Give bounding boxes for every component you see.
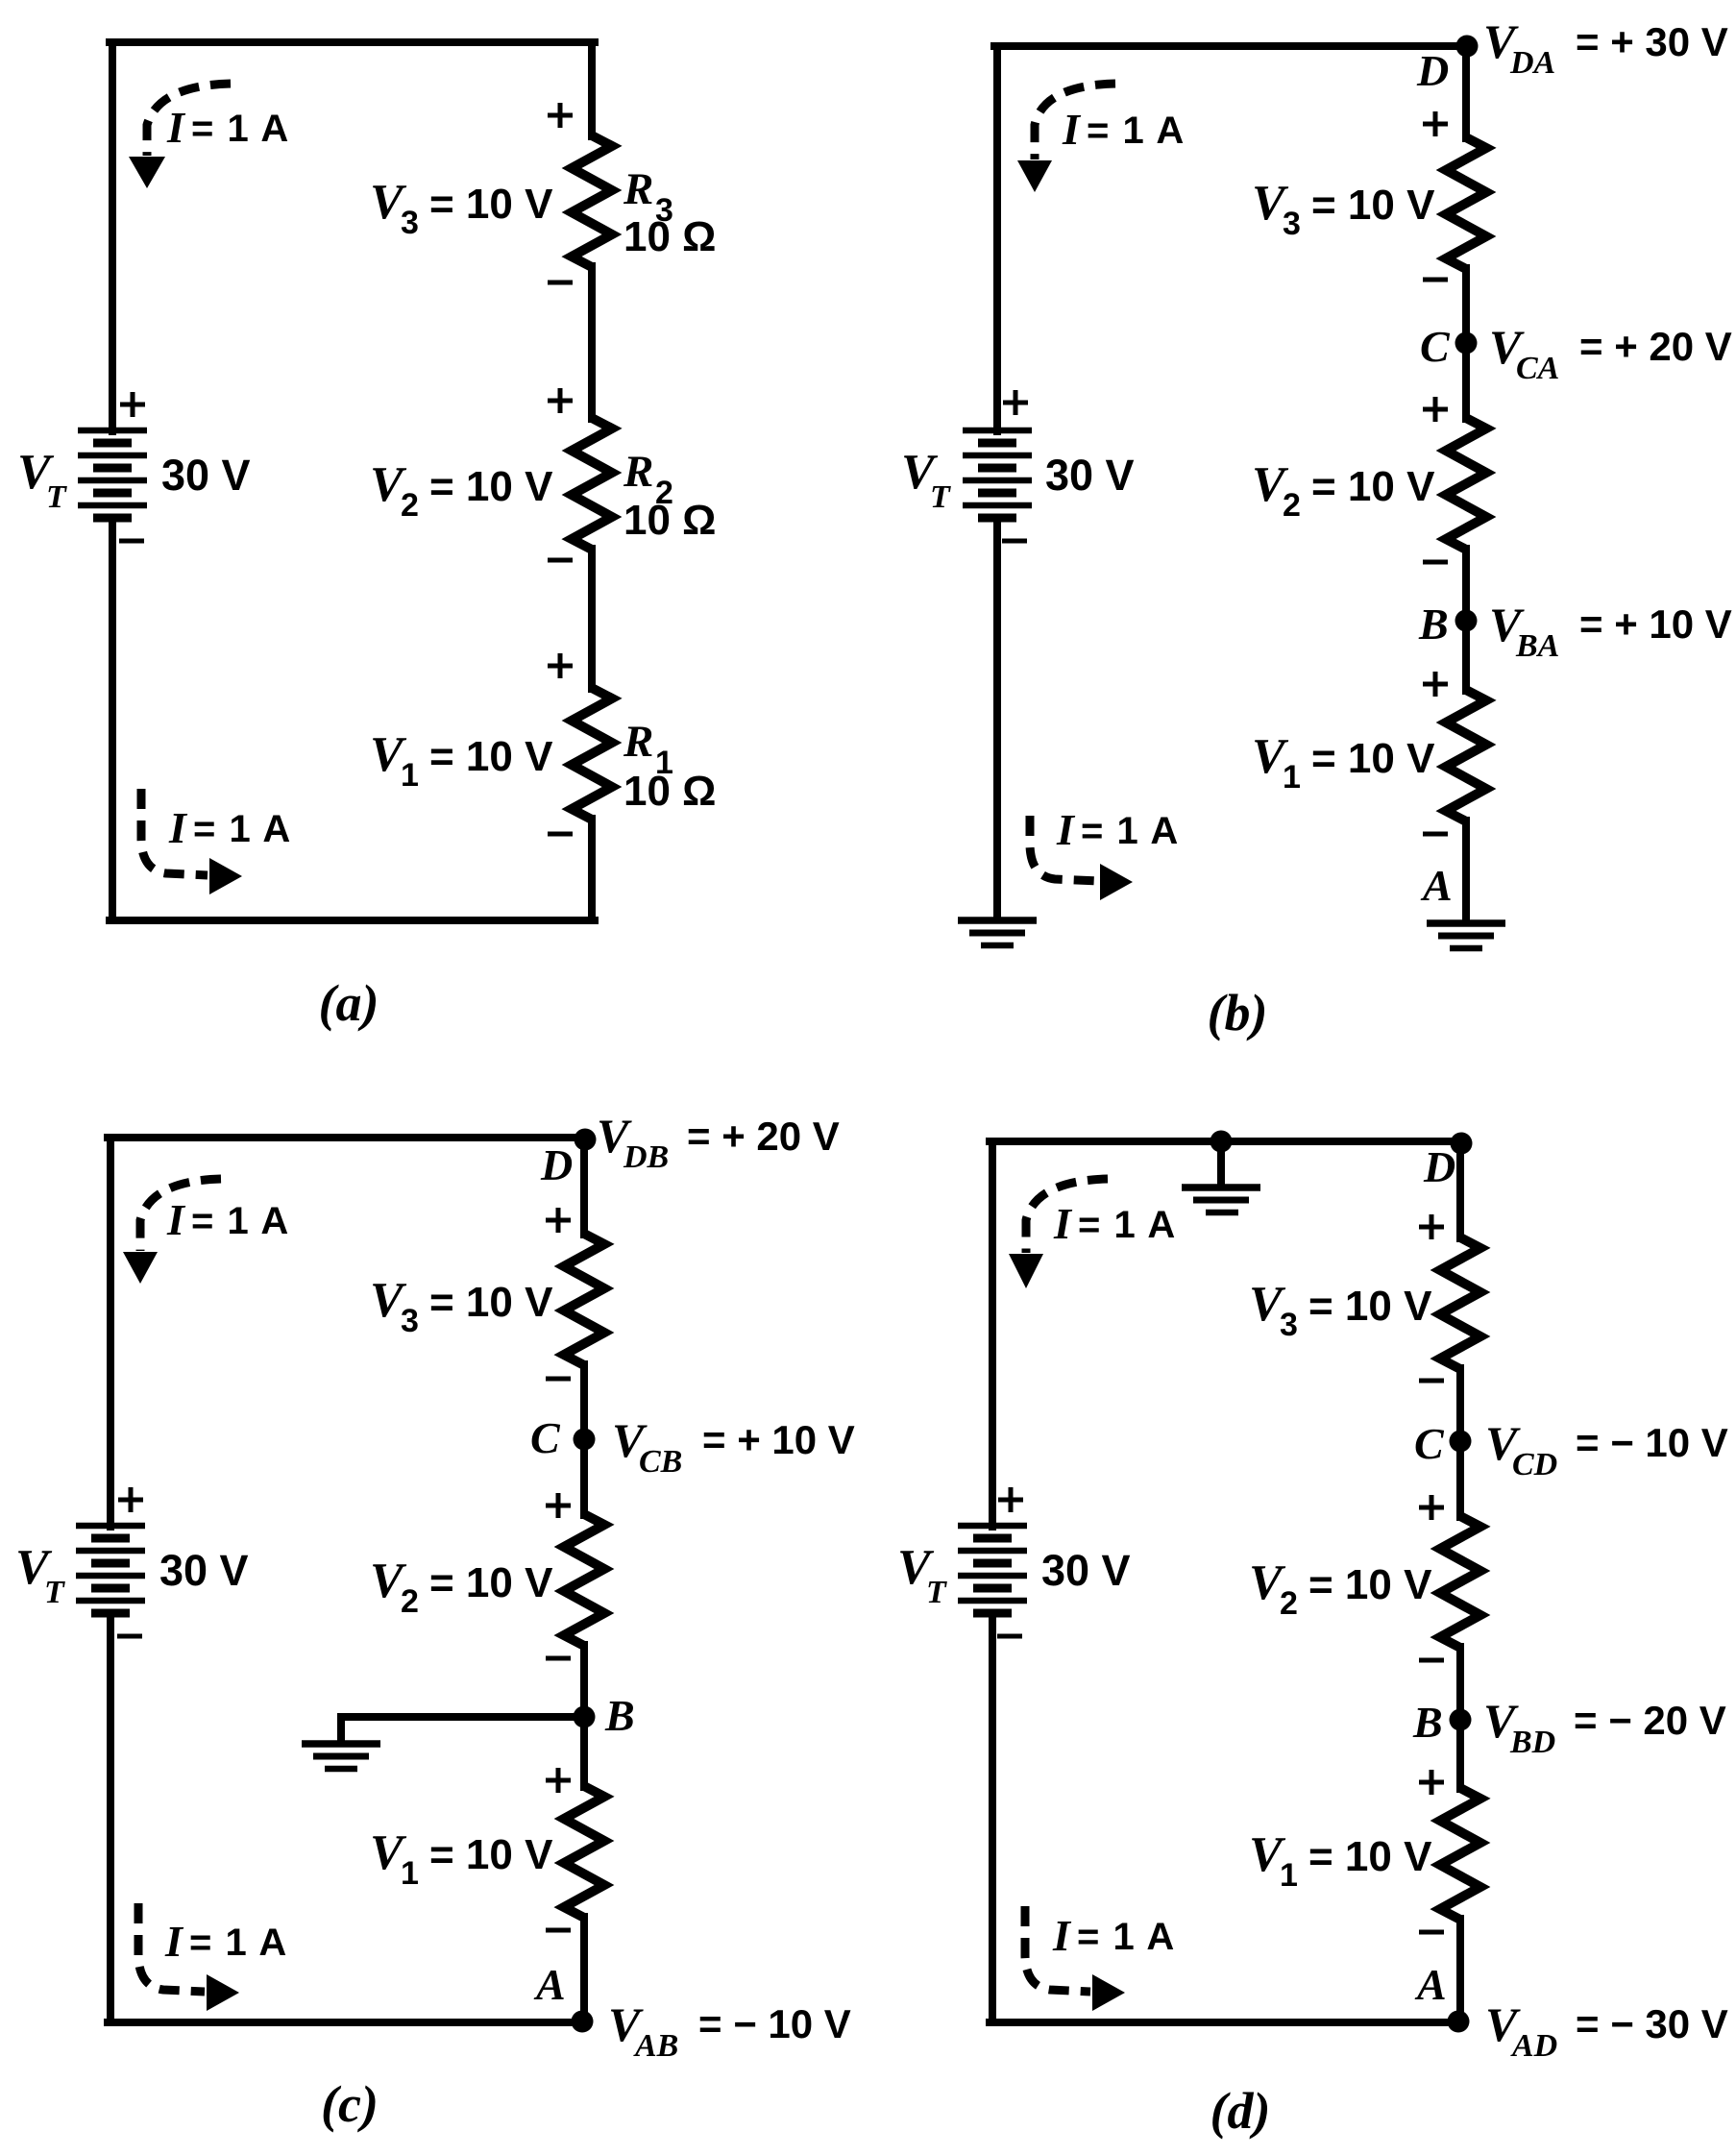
- wire: top side (b): [994, 42, 1468, 50]
- wire: right side R3 to C (d): [1456, 1368, 1464, 1517]
- svg-text:30 V: 30 V: [161, 451, 251, 500]
- svg-text:CB: CB: [639, 1444, 682, 1480]
- svg-text:I: I: [166, 1195, 186, 1244]
- svg-text:DA: DA: [1509, 45, 1555, 81]
- svg-text:10 Ω: 10 Ω: [623, 768, 716, 815]
- label VCD = -10 V (d): [1485, 1416, 1728, 1482]
- label V2 = 10 V (c): [370, 1554, 553, 1620]
- wire: bottom side (c): [108, 2019, 584, 2026]
- current arrow top (a): [129, 84, 231, 188]
- svg-text:BA: BA: [1515, 628, 1559, 664]
- wire: left side upper (b): [993, 46, 1001, 431]
- svg-text:= 1 A: = 1 A: [189, 1922, 288, 1964]
- battery VT (d): [958, 1526, 1027, 1613]
- wire: left side upper (d): [989, 1141, 996, 1527]
- current arrow bottom (d): [1025, 1906, 1125, 2011]
- plus sign above R3 (a): [548, 103, 573, 128]
- plus sign above R1 (b): [1423, 672, 1448, 697]
- label VDA = +30 V (b): [1483, 14, 1728, 81]
- svg-text:= 10 V: = 10 V: [1311, 735, 1435, 782]
- node D dot (c): [575, 1129, 597, 1151]
- current arrow top (b): [1017, 84, 1115, 192]
- plus sign above R3 (d): [1419, 1214, 1444, 1239]
- plus sign above R2 (a): [548, 388, 573, 413]
- resistor R1 (b): [1446, 690, 1486, 821]
- wire: right side R2 to B (d): [1456, 1647, 1464, 1789]
- svg-text:= + 20 V: = + 20 V: [687, 1114, 840, 1159]
- svg-text:1: 1: [401, 1855, 419, 1892]
- svg-text:2: 2: [1283, 487, 1301, 524]
- label R1 (a): [623, 717, 673, 781]
- resistor R3 (d): [1440, 1237, 1480, 1369]
- battery VT (b): [963, 430, 1032, 518]
- svg-text:BD: BD: [1509, 1725, 1555, 1760]
- wire: left side upper (a): [109, 42, 116, 431]
- svg-text:R: R: [623, 164, 653, 214]
- minus sign below R3 (d): [1419, 1379, 1444, 1384]
- svg-text:I: I: [1062, 105, 1082, 154]
- plus sign above R1 (c): [546, 1768, 571, 1793]
- node C dot (b): [1455, 332, 1478, 355]
- label VAB = -10 V (c): [608, 1997, 851, 2064]
- svg-text:(a): (a): [319, 974, 379, 1032]
- wire: right side top (c): [580, 1138, 588, 1235]
- label V2 = 10 V (a): [370, 457, 553, 524]
- label I = 1 A bottom (d): [1052, 1911, 1176, 1960]
- wire: right side R3 to C (b): [1462, 268, 1470, 419]
- ground symbol left (b): [958, 920, 1037, 945]
- wire: right side top (a): [588, 42, 596, 136]
- label V1 = 10 V (a): [370, 727, 553, 794]
- node C dot (c): [574, 1429, 596, 1451]
- wire: right side R2 to B (c): [580, 1645, 588, 1787]
- svg-text:A: A: [533, 1960, 566, 2009]
- label VDB = +20 V (c): [597, 1109, 840, 1175]
- wire: right side top (d): [1456, 1141, 1464, 1238]
- resistor R1 (d): [1440, 1788, 1480, 1920]
- minus sign below R3 (b): [1423, 278, 1448, 282]
- plus sign above R3 (b): [1423, 111, 1448, 136]
- svg-text:I: I: [1056, 805, 1076, 854]
- svg-text:= 10 V: = 10 V: [429, 1279, 553, 1326]
- svg-text:= 1 A: = 1 A: [1087, 110, 1186, 152]
- svg-text:R: R: [623, 717, 653, 767]
- svg-text:T: T: [46, 479, 67, 515]
- svg-text:= + 30 V: = + 30 V: [1576, 19, 1728, 64]
- CIRCUIT B: [901, 14, 1732, 1041]
- label V2 = 10 V (b): [1252, 457, 1435, 524]
- svg-text:C: C: [1414, 1419, 1445, 1468]
- minus sign below R1 (d): [1419, 1930, 1444, 1935]
- svg-text:= + 10 V: = + 10 V: [1579, 601, 1732, 647]
- svg-text:= − 10 V: = − 10 V: [1576, 1420, 1728, 1465]
- battery minus sign (c): [117, 1634, 142, 1639]
- plus sign above R1 (d): [1419, 1770, 1444, 1795]
- svg-text:B: B: [604, 1691, 635, 1740]
- svg-text:B: B: [1418, 600, 1449, 649]
- svg-text:2: 2: [401, 1583, 419, 1620]
- label V1 = 10 V (c): [370, 1825, 553, 1892]
- current arrow bottom (a): [141, 789, 242, 894]
- label R3 (a): [623, 164, 673, 229]
- label VT (c): [15, 1540, 65, 1610]
- svg-text:2: 2: [1280, 1585, 1298, 1622]
- battery plus sign (c): [118, 1487, 143, 1512]
- svg-text:= 10 V: = 10 V: [1308, 1283, 1432, 1330]
- resistor R3 (a): [572, 135, 612, 267]
- svg-text:30 V: 30 V: [159, 1546, 249, 1595]
- ground symbol right (b): [1427, 923, 1505, 948]
- plus sign above R2 (b): [1423, 397, 1448, 422]
- minus sign below R1 (b): [1423, 832, 1448, 837]
- svg-text:3: 3: [401, 1303, 419, 1339]
- wire: right side R2 to B (b): [1462, 549, 1470, 691]
- resistor R1 (c): [564, 1786, 604, 1918]
- label I = 1 A bottom (a): [168, 803, 292, 852]
- svg-text:2: 2: [401, 487, 419, 524]
- label V3 = 10 V (d): [1249, 1277, 1432, 1343]
- node D dot (b): [1456, 36, 1479, 58]
- label V3 = 10 V (c): [370, 1273, 553, 1339]
- svg-text:= 10 V: = 10 V: [1308, 1561, 1432, 1608]
- svg-text:= − 20 V: = − 20 V: [1574, 1698, 1726, 1743]
- svg-text:A: A: [1414, 1960, 1447, 2009]
- svg-text:= − 30 V: = − 30 V: [1576, 2001, 1728, 2046]
- svg-text:= 1 A: = 1 A: [193, 808, 292, 850]
- wire: left side lower (d): [989, 1613, 996, 2022]
- node A dot (c): [572, 2011, 594, 2033]
- svg-text:= 1 A: = 1 A: [1077, 1916, 1176, 1958]
- wire: right side bottom (c): [580, 1917, 588, 2022]
- wire: left side upper (c): [107, 1138, 114, 1527]
- svg-text:T: T: [930, 479, 951, 515]
- svg-text:= 1 A: = 1 A: [1078, 1204, 1177, 1246]
- svg-text:I: I: [166, 103, 186, 152]
- svg-text:D: D: [540, 1140, 573, 1189]
- minus sign below R1 (a): [548, 832, 573, 837]
- wire: bottom side (d): [990, 2019, 1460, 2026]
- resistor R3 (b): [1446, 137, 1486, 269]
- plus sign above R1 (a): [548, 653, 573, 678]
- svg-text:T: T: [44, 1575, 65, 1610]
- svg-text:= + 10 V: = + 10 V: [702, 1417, 855, 1462]
- label I = 1 A bottom (c): [164, 1917, 288, 1966]
- label V3 = 10 V (a): [370, 175, 553, 241]
- wire: right side between R3 and R2 (a): [588, 266, 596, 419]
- resistor R2 (a): [572, 418, 612, 550]
- svg-text:10 Ω: 10 Ω: [623, 497, 716, 544]
- ground symbol at B (c): [302, 1744, 380, 1769]
- svg-text:1: 1: [401, 757, 419, 794]
- svg-text:AB: AB: [633, 2028, 678, 2064]
- svg-text:D: D: [1423, 1142, 1455, 1191]
- current arrow top (d): [1009, 1179, 1108, 1288]
- battery VT (c): [76, 1526, 145, 1613]
- battery minus sign (d): [997, 1634, 1022, 1639]
- label VBD = -20 V (d): [1483, 1694, 1726, 1760]
- svg-text:30 V: 30 V: [1041, 1546, 1131, 1595]
- wire: right side between R2 and R1 (a): [588, 549, 596, 689]
- label VCA = +20 V (b): [1489, 320, 1732, 386]
- svg-text:T: T: [926, 1575, 947, 1610]
- svg-text:= 10 V: = 10 V: [429, 181, 553, 228]
- svg-text:3: 3: [1280, 1307, 1298, 1343]
- wire: ground stub from B (c): [341, 1717, 584, 1742]
- ground symbol top (d): [1182, 1188, 1260, 1212]
- label I = 1 A top (b): [1062, 105, 1186, 154]
- wire: right side bottom to ground (b): [1462, 820, 1470, 921]
- plus sign above R2 (c): [546, 1493, 571, 1518]
- svg-text:A: A: [1420, 861, 1453, 910]
- node D dot (d): [1451, 1133, 1473, 1155]
- resistor R2 (c): [564, 1514, 604, 1646]
- battery minus sign (a): [119, 539, 144, 544]
- label V2 = 10 V (d): [1249, 1555, 1432, 1622]
- node B dot (c): [574, 1706, 596, 1728]
- label VT (b): [901, 445, 951, 515]
- label VT (a): [17, 445, 67, 515]
- label I = 1 A bottom (b): [1056, 805, 1180, 854]
- svg-text:DB: DB: [623, 1139, 669, 1175]
- wire: ground stub (d): [1217, 1141, 1225, 1185]
- battery plus sign (b): [1003, 390, 1028, 415]
- plus sign above R2 (d): [1419, 1495, 1444, 1520]
- plus sign above R3 (c): [546, 1208, 571, 1233]
- label I = 1 A top (d): [1053, 1199, 1177, 1248]
- wire: top side (d): [990, 1138, 1462, 1145]
- svg-text:(b): (b): [1208, 984, 1268, 1041]
- label VBA = +10 V (b): [1489, 598, 1732, 664]
- label R2 (a): [623, 447, 673, 511]
- minus sign below R2 (d): [1419, 1658, 1444, 1663]
- resistor R2 (b): [1446, 418, 1486, 550]
- current arrow bottom (c): [138, 1903, 239, 2011]
- svg-text:I: I: [1052, 1911, 1072, 1960]
- minus sign below R3 (c): [546, 1377, 571, 1382]
- svg-text:1: 1: [1283, 759, 1301, 796]
- wire: left side lower (b): [993, 518, 1001, 918]
- svg-text:= 1 A: = 1 A: [191, 1200, 290, 1242]
- minus sign below R1 (c): [546, 1928, 571, 1933]
- label V1 = 10 V (d): [1249, 1827, 1432, 1894]
- svg-text:= 1 A: = 1 A: [1081, 810, 1180, 852]
- minus sign below R2 (b): [1423, 560, 1448, 565]
- svg-text:= 10 V: = 10 V: [429, 1559, 553, 1606]
- wire: left side lower (a): [109, 518, 116, 920]
- svg-text:= 10 V: = 10 V: [1311, 182, 1435, 229]
- node A dot (d): [1448, 2011, 1470, 2033]
- svg-text:3: 3: [1283, 206, 1301, 242]
- CIRCUIT C: [15, 1109, 855, 2133]
- label VT (d): [897, 1540, 947, 1610]
- CIRCUIT D: [897, 1131, 1728, 2141]
- battery plus sign (a): [120, 392, 145, 417]
- svg-text:= + 20 V: = + 20 V: [1579, 324, 1732, 369]
- svg-text:AD: AD: [1510, 2028, 1557, 2064]
- resistor R3 (c): [564, 1234, 604, 1365]
- svg-text:= 1 A: = 1 A: [191, 108, 290, 150]
- svg-text:I: I: [164, 1917, 184, 1966]
- svg-text:CA: CA: [1516, 351, 1559, 386]
- wire: left side lower (c): [107, 1613, 114, 2022]
- ground junction dot (d): [1210, 1131, 1233, 1153]
- svg-text:R: R: [623, 447, 653, 497]
- svg-text:D: D: [1416, 46, 1449, 95]
- svg-text:C: C: [530, 1413, 561, 1462]
- current arrow bottom (b): [1030, 816, 1133, 900]
- resistor R1 (a): [572, 688, 612, 820]
- label VAD = -30 V (d): [1485, 1997, 1728, 2064]
- svg-text:CD: CD: [1512, 1447, 1557, 1482]
- label V1 = 10 V (b): [1252, 729, 1435, 796]
- node B dot (b): [1455, 610, 1478, 632]
- svg-text:B: B: [1412, 1698, 1443, 1747]
- wire: bottom side (a): [110, 917, 595, 924]
- current arrow top (c): [123, 1179, 221, 1284]
- label I = 1 A top (a): [166, 103, 290, 152]
- svg-text:(d): (d): [1210, 2082, 1271, 2140]
- svg-text:= 10 V: = 10 V: [1311, 463, 1435, 510]
- svg-text:= 10 V: = 10 V: [429, 463, 553, 510]
- resistor R2 (d): [1440, 1516, 1480, 1648]
- wire: top side (c): [108, 1134, 587, 1141]
- svg-text:= 10 V: = 10 V: [1308, 1833, 1432, 1880]
- minus sign below R2 (c): [546, 1656, 571, 1661]
- node C dot (d): [1450, 1431, 1472, 1453]
- wire: right side bottom (d): [1456, 1919, 1464, 2022]
- svg-text:= − 10 V: = − 10 V: [698, 2001, 851, 2046]
- minus sign below R2 (a): [548, 558, 573, 563]
- svg-text:3: 3: [401, 205, 419, 241]
- battery minus sign (b): [1002, 539, 1027, 544]
- svg-text:= 10 V: = 10 V: [429, 1831, 553, 1878]
- svg-text:C: C: [1420, 322, 1451, 371]
- svg-text:10 Ω: 10 Ω: [623, 213, 716, 260]
- label V3 = 10 V (b): [1252, 176, 1435, 242]
- label VCB = +10 V (c): [612, 1413, 855, 1480]
- battery plus sign (d): [998, 1487, 1023, 1512]
- label I = 1 A top (c): [166, 1195, 290, 1244]
- svg-text:I: I: [168, 803, 188, 852]
- node B dot (d): [1450, 1709, 1472, 1731]
- wire: right side bottom (a): [588, 819, 596, 920]
- svg-text:= 10 V: = 10 V: [429, 733, 553, 780]
- wire: right side top (b): [1462, 46, 1470, 138]
- wire: right side R3 to C (c): [580, 1364, 588, 1515]
- CIRCUIT A: [17, 42, 716, 1032]
- svg-text:(c): (c): [321, 2075, 379, 2133]
- svg-text:30 V: 30 V: [1045, 451, 1135, 500]
- battery VT (a): [78, 430, 147, 518]
- svg-text:I: I: [1053, 1199, 1073, 1248]
- svg-text:1: 1: [1280, 1857, 1298, 1894]
- minus sign below R3 (a): [548, 281, 573, 285]
- wire: top side (a): [110, 38, 595, 46]
